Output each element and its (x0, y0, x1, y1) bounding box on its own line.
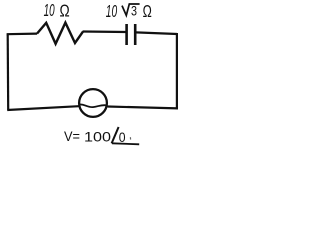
value label: V = 100∠0 (source phasor) (64, 127, 139, 145)
capacitor C1 left plate (125, 24, 128, 45)
wire: bottom-right segment (corner to AC source) (108, 107, 179, 109)
svg-text:V=: V= (64, 128, 80, 144)
wire: capacitor to top-right corner (136, 32, 177, 34)
wire: top-left segment (corner to resistor) (7, 32, 37, 35)
AC source V1 sine wave (79, 104, 107, 107)
svg-text:0: 0 (119, 129, 126, 145)
capacitor C1 right plate (134, 24, 137, 45)
svg-text:Ω: Ω (60, 0, 70, 20)
svg-text:Ω: Ω (143, 1, 152, 21)
value label: 10 Ω (resistor) (44, 0, 70, 20)
svg-text:10: 10 (44, 0, 55, 20)
wire: left side vertical (top-left corner to bottom-left corner) (7, 35, 10, 110)
svg-text:3: 3 (131, 4, 137, 19)
wire: resistor to capacitor (83, 30, 126, 33)
resistor R1 (zigzag) (37, 23, 83, 44)
svg-text:100: 100 (84, 129, 111, 145)
AC source V1 (circle) (79, 89, 107, 117)
wire: bottom-left segment (AC source to corner) (7, 106, 79, 110)
svg-text:10: 10 (106, 1, 117, 21)
wire: right side vertical (176, 33, 178, 109)
value label: 10 √3 Ω (capacitor), radical drawn as path (106, 1, 152, 21)
